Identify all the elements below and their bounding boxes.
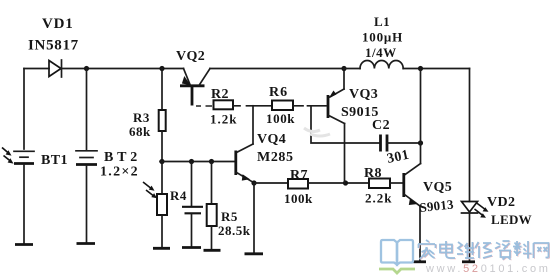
svg-text:100k: 100k [284, 191, 313, 206]
svg-text:1.2k: 1.2k [210, 112, 237, 127]
LED VD2 [462, 202, 478, 262]
ground C1 bottom bar [182, 246, 201, 249]
label R2 [211, 87, 229, 102]
watermark url [425, 263, 551, 275]
svg-text:R7: R7 [290, 168, 308, 183]
node R5 top [209, 159, 214, 164]
label R8 [364, 166, 382, 181]
label 100uH [362, 30, 403, 45]
label S9015 [341, 105, 379, 120]
watermark green swoosh [379, 269, 415, 273]
ground BT2 bottom bar [77, 242, 96, 245]
ground VQ5 bottom bar [414, 260, 427, 263]
label 100k (R7) [284, 191, 313, 206]
ground R5 bottom bar [204, 249, 221, 252]
label BT1 [41, 153, 68, 168]
resistor R2 [214, 100, 234, 109]
label L1 [374, 14, 390, 29]
label R6 [269, 85, 288, 100]
svg-text:R8: R8 [364, 166, 382, 181]
wire BT2 rail down [86, 69, 88, 151]
svg-text:28.5k: 28.5k [218, 223, 251, 238]
svg-text:100k: 100k [266, 111, 295, 126]
watermark char xiu [475, 242, 493, 259]
wire base bus [160, 161, 235, 163]
wire R2 to R6 [233, 105, 272, 107]
wire R8 to VQ5 base [390, 182, 402, 184]
label VQ5 [423, 180, 452, 195]
node VQ4 emitter [251, 180, 256, 185]
svg-text:IN5817: IN5817 [28, 38, 79, 54]
watermark faint remnant [304, 128, 330, 136]
svg-text:1/4W: 1/4W [365, 45, 397, 60]
svg-text:2.2k: 2.2k [365, 191, 392, 206]
watermark char wei [457, 242, 475, 259]
wire left rail down [23, 69, 25, 150]
ground right rail bottom bar [462, 260, 475, 263]
diode VD1 [49, 60, 62, 77]
node BT2 top junction [84, 66, 89, 71]
watermark char wang [534, 243, 550, 259]
label S9013 [419, 196, 455, 215]
svg-text:BT1: BT1 [41, 153, 68, 168]
label 100k (R6) [266, 111, 295, 126]
label 1.2x2 [100, 165, 139, 180]
wire R6 to VQ3 base [293, 105, 326, 107]
label VQ2 [176, 49, 205, 64]
svg-text:VQ5: VQ5 [423, 180, 452, 195]
svg-text:100μH: 100μH [362, 30, 403, 45]
resistor R6 [272, 101, 293, 111]
light arrows BT1 [2, 148, 14, 164]
label 301 [386, 148, 411, 167]
node R3 top junction [159, 66, 164, 71]
resistor R7 [288, 179, 308, 189]
wire VQ4 emitter down [253, 183, 255, 254]
label R7 [290, 168, 308, 183]
battery BT1 [14, 151, 34, 244]
svg-text:VQ2: VQ2 [176, 49, 205, 64]
svg-text:LEDW: LEDW [491, 212, 532, 227]
label 68k [129, 124, 151, 139]
inductor L1 [360, 60, 403, 68]
svg-text:VD1: VD1 [42, 16, 74, 32]
svg-text:R5: R5 [221, 209, 238, 224]
transistor VQ3 [328, 69, 345, 184]
label M285 [257, 150, 294, 165]
transistor VQ5 [404, 143, 421, 262]
wire right rail down [469, 69, 471, 202]
node C2 right junction [418, 140, 423, 145]
label 1.2k [210, 112, 237, 127]
wire R7 to R8 [308, 182, 369, 184]
ground VQ4 bottom bar [245, 252, 264, 255]
wire L1 junction down to C2 junction [420, 69, 422, 144]
label BT2 [104, 150, 141, 165]
wire VQ2 base to R2 dashed [196, 105, 212, 107]
svg-text:M285: M285 [257, 150, 294, 165]
resistor R5 [207, 162, 217, 251]
watermark book icon [381, 240, 413, 265]
wire emitter to R7 [254, 182, 288, 184]
svg-text:www.520101.com: www.520101.com [425, 263, 551, 275]
wire rail to L1 [344, 68, 360, 70]
svg-text:1.2×2: 1.2×2 [100, 165, 139, 180]
node VQ3 collector junction [343, 180, 348, 185]
svg-text:VD2: VD2 [487, 195, 515, 210]
label VD1 [42, 16, 74, 32]
watermark char jia [418, 240, 436, 260]
resistor R8 [369, 179, 390, 189]
label VD2 [487, 195, 515, 210]
svg-text:C2: C2 [372, 118, 390, 133]
svg-text:VQ4: VQ4 [257, 132, 286, 147]
ground BT1 bottom bar [15, 243, 33, 246]
svg-text:R3: R3 [133, 110, 150, 125]
svg-text:68k: 68k [129, 124, 151, 139]
watermark char zi [495, 241, 512, 260]
wire top rail left segment [24, 68, 49, 70]
ground R4 bottom bar [153, 247, 170, 250]
svg-text:R4: R4 [170, 188, 187, 203]
transistor VQ4 [236, 106, 254, 183]
resistor R3 [159, 69, 166, 162]
svg-text:R6: R6 [269, 85, 288, 100]
svg-text:R2: R2 [211, 87, 229, 102]
label R4 [170, 188, 187, 203]
svg-text:L1: L1 [374, 14, 390, 29]
node VQ3 top junction [341, 66, 346, 71]
label R3 [133, 110, 150, 125]
node capacitor C1 top [189, 159, 194, 164]
label VQ3 [349, 87, 378, 102]
label 28.5k [218, 223, 251, 238]
watermark char liao [513, 241, 532, 259]
light arrows VD2 [475, 203, 489, 218]
label R5 [221, 209, 238, 224]
label 1/4W [365, 45, 397, 60]
wire top rail VQ2 to VQ3 [210, 68, 344, 70]
capacitor C2 [381, 135, 421, 152]
svg-text:BT2: BT2 [104, 150, 141, 165]
wire VQ3 base branch to C2 [311, 106, 379, 143]
label C2 [372, 118, 390, 133]
label 2.2k [365, 191, 392, 206]
battery BT2 [76, 151, 97, 243]
light arrows R4 [143, 182, 157, 198]
node L1 right junction [418, 66, 423, 71]
capacitor C1 [182, 162, 203, 248]
label LEDW [491, 212, 532, 227]
label IN5817 [28, 38, 79, 54]
node base bus left [159, 159, 164, 164]
svg-text:VQ3: VQ3 [349, 87, 378, 102]
label VQ4 [257, 132, 286, 147]
wire top rail diode to VQ2 [62, 68, 184, 70]
watermark char dian [440, 241, 456, 259]
photoresistor R4 [157, 162, 167, 249]
wire L1 to right corner [403, 68, 469, 70]
transistor VQ2 [180, 69, 210, 106]
